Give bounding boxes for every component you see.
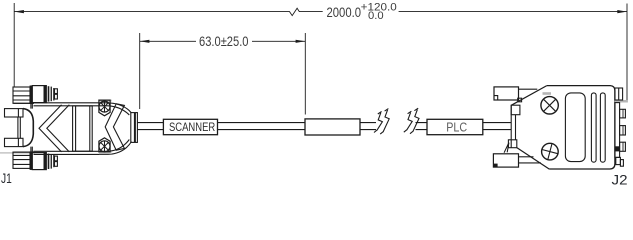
J2 pin block 3 [620, 142, 626, 151]
J1 flange step lines [14, 103, 35, 152]
svg-text:PLC: PLC [446, 120, 467, 134]
dimension D1 arrowhead right [617, 10, 627, 13]
J1 chevron 2 [105, 104, 124, 150]
J1 flange top box [5, 109, 24, 117]
cable segment SCANNER label to sleeve [218, 123, 306, 130]
J2 top thumbscrew wing [494, 87, 537, 102]
J1 top screw gray cap [99, 100, 112, 102]
J1 top jackscrew tip [53, 88, 57, 101]
svg-text:SCANNER: SCANNER [169, 120, 215, 134]
dimension D2 line [140, 40, 306, 42]
J2 pin block 2 [620, 126, 626, 135]
J1 bottom screw head [99, 141, 110, 152]
J1 top jackscrew knob [32, 86, 46, 103]
J1 top jackscrew knurl bars [48, 86, 52, 101]
J2 dark latch mark [615, 146, 619, 151]
J2 boot top chamfer [511, 86, 547, 106]
J1 chevron 1 [39, 105, 69, 152]
cable segment J1 to SCANNER label [137, 123, 163, 130]
J2 D-sub flange [615, 103, 620, 158]
dimension D2 extension line left [139, 33, 141, 109]
cable segment break to PLC label [416, 123, 428, 130]
J2 gray band at flange [615, 100, 628, 103]
dimension D1 extension line right [626, 4, 628, 103]
J2 cable clamp [508, 105, 520, 148]
J1 boot fillet bottom arc [23, 134, 33, 147]
J1 flange bottom box [5, 138, 24, 146]
J1 body inner bottom edge [34, 140, 130, 152]
J1 top screw head [99, 101, 110, 112]
J2 pin block 4 [620, 160, 623, 167]
cable break symbol pair 2 bolt A [404, 111, 412, 132]
J2 body outline [547, 86, 615, 169]
J1 bottom jackscrew flange plate (dark bar) [30, 151, 32, 170]
dimension D1 extension line left [13, 3, 15, 87]
svg-text:J1: J1 [1, 171, 12, 186]
dimension D1 arrowhead left [14, 10, 24, 13]
PLC marker box [427, 119, 483, 134]
dimension D2 arrowhead right [296, 40, 306, 43]
J1 boot fillet top arc [23, 109, 33, 121]
J1 body outer bottom edge [34, 142, 132, 155]
J1 gray shadow line bottom-left [0, 152, 35, 153]
J1 top jackscrew striped standoff [13, 87, 30, 103]
svg-text:2000.0: 2000.0 [327, 5, 362, 20]
dimension D2 arrowhead left [140, 40, 150, 43]
J1 middle strip [73, 106, 93, 151]
J2 bottom jaw mark [504, 143, 509, 153]
J1 boot left edge [32, 121, 34, 134]
svg-text:J2: J2 [612, 172, 628, 188]
J2 flange foot [616, 157, 621, 164]
J1 body outer top edge [34, 103, 132, 113]
cable segment sleeve to break [360, 123, 376, 130]
svg-text:63.0±25.0: 63.0±25.0 [199, 34, 249, 49]
SCANNER marker box [163, 119, 217, 134]
cable break symbol pair 1 bolt B [380, 109, 389, 135]
J1 top screw housing [99, 100, 110, 116]
cable segment PLC label to J2 [483, 123, 511, 130]
J2 top cap box [615, 88, 623, 100]
J1 bottom jackscrew knurl bars [48, 154, 52, 169]
J1 bottom jackscrew striped standoff [13, 152, 30, 168]
J2 narrow ridge slot 1 [591, 93, 596, 162]
J1 cable nose [131, 113, 138, 143]
cable break symbol pair 2 bolt B [410, 108, 419, 134]
J1 bottom screw housing [99, 138, 110, 152]
J1 top jackscrew flange plate (dark bar) [30, 86, 32, 105]
J1 bottom jackscrew tip [53, 155, 57, 168]
J2 top screw head (X slot) [541, 97, 558, 114]
J1 bottom jackscrew knob [32, 153, 46, 170]
dimension D1 line left segment with break zigzag [14, 8, 323, 15]
J2 pin block 1 [620, 109, 626, 118]
J1 flange side edges [31, 103, 32, 152]
svg-text:0.0: 0.0 [368, 10, 384, 22]
J1 body inner top edge [34, 106, 130, 115]
J2 bottom thumbscrew wing [493, 154, 541, 167]
J1 bottom screw gray cap [99, 152, 112, 154]
cable break symbol pair 1 bolt A [374, 112, 382, 133]
dimension D1 line right segment [399, 11, 627, 13]
sleeve / heat-shrink marker [305, 119, 360, 135]
J2 top screw gray cap [543, 92, 552, 95]
J2 bottom screw head (cross slot) [542, 143, 559, 160]
J2 wide ridge slot [565, 93, 585, 162]
dimension D2 extension line right [304, 33, 306, 115]
J1 flange middle edge [18, 117, 20, 138]
J2 narrow ridge slot 2 [600, 93, 605, 162]
J2 boot bottom chamfer [517, 148, 550, 170]
